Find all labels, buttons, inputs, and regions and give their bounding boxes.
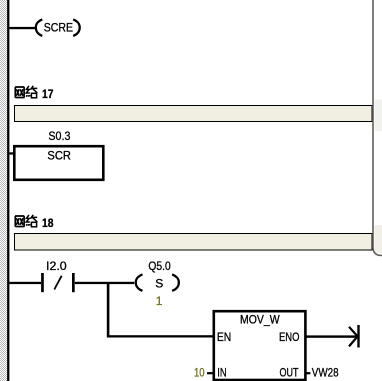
coil Q5.0 left paren — [136, 274, 143, 290]
network 17 title text — [15, 86, 54, 101]
svg-text:S0.3: S0.3 — [48, 129, 70, 143]
wire stub 10 to IN — [207, 372, 215, 374]
svg-text:I2.0: I2.0 — [46, 259, 67, 273]
coil Q5.0 right paren — [172, 274, 179, 290]
svg-text:SCRE: SCRE — [44, 21, 73, 35]
svg-text:MOV_W: MOV_W — [240, 313, 280, 327]
network 18 comment bar — [15, 234, 373, 251]
continuation arrow head lower stroke — [349, 336, 358, 346]
SCR box — [14, 146, 103, 180]
wire contact to coil Q5.0 — [75, 282, 134, 284]
right panel light patch lower — [375, 225, 382, 253]
right panel border with rounded corner — [373, 0, 382, 256]
wire ENO to continuation arrow — [306, 335, 358, 337]
svg-text:EN: EN — [217, 330, 231, 344]
junction vertical wire drop — [107, 283, 110, 337]
continuation arrow bar — [357, 325, 359, 348]
wire rail to coil SCRE — [9, 27, 34, 29]
wire stub rail to SCR box — [9, 152, 14, 154]
network 18 title text — [15, 215, 54, 230]
svg-text:IN: IN — [217, 366, 226, 380]
svg-text:OUT: OUT — [280, 366, 299, 380]
svg-text:VW28: VW28 — [312, 366, 339, 380]
svg-text:ENO: ENO — [279, 330, 300, 344]
coil SCRE right paren — [73, 19, 80, 36]
network 17 comment bar — [15, 106, 373, 122]
MOV_W box — [214, 311, 306, 380]
contact I2.0 NC slash — [54, 276, 61, 290]
svg-text:18: 18 — [42, 216, 54, 230]
right panel light patch upper — [375, 100, 382, 132]
left margin dithered strip — [0, 0, 7, 381]
svg-text:10: 10 — [194, 365, 205, 379]
svg-text:17: 17 — [42, 87, 54, 101]
contact I2.0 left bar — [41, 273, 44, 292]
wire stub OUT to VW28 — [306, 372, 311, 374]
svg-text:1: 1 — [156, 294, 163, 308]
left power rail — [7, 0, 9, 381]
wire drop to MOV_W box — [107, 335, 214, 337]
coil SCRE left paren — [36, 19, 43, 36]
svg-text:Q5.0: Q5.0 — [148, 259, 171, 273]
svg-text:SCR: SCR — [47, 148, 71, 162]
continuation arrow head upper stroke — [349, 327, 358, 337]
wire rail to contact I2.0 — [9, 282, 41, 284]
contact I2.0 right bar — [72, 273, 75, 292]
svg-text:S: S — [155, 276, 163, 290]
